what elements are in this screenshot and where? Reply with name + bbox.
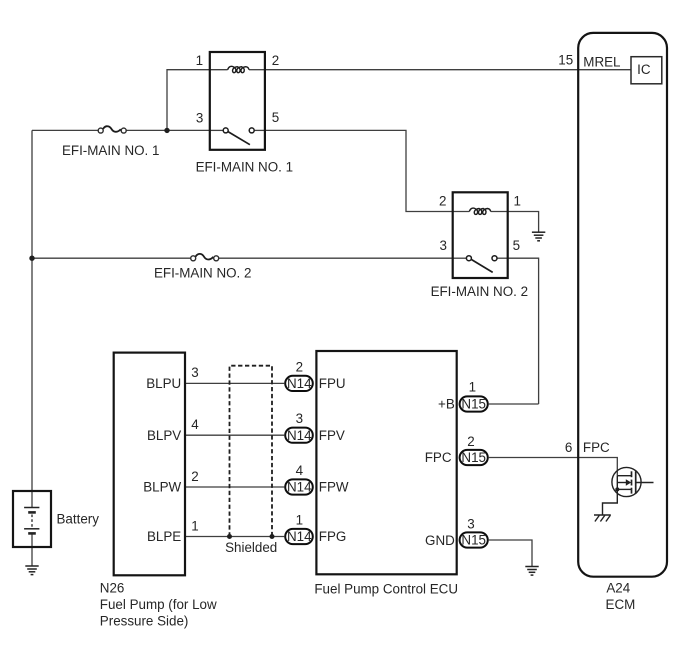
svg-text:N14: N14 xyxy=(287,480,312,495)
svg-text:N14: N14 xyxy=(287,428,312,443)
svg-text:EFI-MAIN NO. 1: EFI-MAIN NO. 1 xyxy=(196,159,293,174)
svg-text:5: 5 xyxy=(513,238,520,253)
svg-text:15: 15 xyxy=(558,52,573,67)
svg-text:BLPV: BLPV xyxy=(147,428,181,443)
svg-text:BLPE: BLPE xyxy=(147,529,181,544)
svg-text:BLPW: BLPW xyxy=(143,480,181,495)
svg-text:2: 2 xyxy=(272,53,279,68)
svg-text:4: 4 xyxy=(191,417,199,432)
svg-text:FPG: FPG xyxy=(319,529,347,544)
svg-text:Fuel Pump Control ECU: Fuel Pump Control ECU xyxy=(314,582,458,597)
svg-text:EFI-MAIN NO. 2: EFI-MAIN NO. 2 xyxy=(154,265,251,280)
svg-text:N15: N15 xyxy=(461,533,486,548)
svg-text:N14: N14 xyxy=(287,529,312,544)
svg-text:3: 3 xyxy=(467,516,474,531)
svg-text:Shielded: Shielded xyxy=(225,540,277,555)
svg-text:FPU: FPU xyxy=(319,376,346,391)
svg-text:GND: GND xyxy=(425,533,455,548)
svg-text:+B: +B xyxy=(438,397,455,412)
svg-text:2: 2 xyxy=(191,469,198,484)
svg-text:Pressure Side): Pressure Side) xyxy=(100,614,189,629)
svg-text:3: 3 xyxy=(296,411,303,426)
svg-text:1: 1 xyxy=(196,53,203,68)
svg-text:1: 1 xyxy=(469,379,476,394)
svg-text:FPC: FPC xyxy=(425,450,452,465)
svg-text:3: 3 xyxy=(196,110,203,125)
svg-text:2: 2 xyxy=(296,359,303,374)
svg-text:3: 3 xyxy=(191,365,198,380)
svg-text:4: 4 xyxy=(296,463,304,478)
svg-text:MREL: MREL xyxy=(583,54,620,69)
svg-text:N14: N14 xyxy=(287,376,312,391)
svg-text:1: 1 xyxy=(191,519,198,534)
svg-text:6: 6 xyxy=(565,440,572,455)
svg-text:FPC: FPC xyxy=(583,440,610,455)
svg-text:IC: IC xyxy=(637,62,651,77)
svg-text:2: 2 xyxy=(467,434,474,449)
svg-text:1: 1 xyxy=(514,193,521,208)
svg-text:2: 2 xyxy=(439,193,446,208)
svg-text:N15: N15 xyxy=(461,450,486,465)
svg-text:3: 3 xyxy=(440,238,447,253)
svg-text:A24: A24 xyxy=(606,581,630,596)
svg-text:EFI-MAIN NO. 2: EFI-MAIN NO. 2 xyxy=(431,284,528,299)
svg-text:N15: N15 xyxy=(461,397,486,412)
svg-text:BLPU: BLPU xyxy=(146,376,181,391)
svg-text:EFI-MAIN NO. 1: EFI-MAIN NO. 1 xyxy=(62,143,159,158)
svg-text:N26: N26 xyxy=(100,580,125,595)
svg-text:1: 1 xyxy=(296,512,303,527)
svg-text:5: 5 xyxy=(272,110,279,125)
svg-text:ECM: ECM xyxy=(606,597,636,612)
svg-text:Fuel Pump (for Low: Fuel Pump (for Low xyxy=(100,597,217,612)
svg-text:Battery: Battery xyxy=(57,512,100,527)
svg-text:FPV: FPV xyxy=(319,428,345,443)
svg-text:FPW: FPW xyxy=(319,480,349,495)
